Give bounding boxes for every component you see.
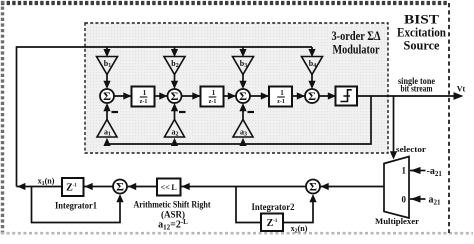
- svg-text:Σ: Σ: [309, 180, 317, 194]
- svg-text:selector: selector: [396, 144, 426, 154]
- wire: [319, 95, 336, 97]
- mux input 0: a21: [410, 198, 426, 200]
- coefficient a1 triangle: [97, 120, 117, 138]
- wire b4 to summer: [311, 75, 313, 85]
- figure outer dashed border left: [1, 1, 4, 236]
- wire: [292, 95, 305, 97]
- inner dashed separator line right: [448, 3, 450, 233]
- svg-text:Source: Source: [404, 39, 440, 53]
- summer S1b (integrator1 sigma): [113, 180, 127, 194]
- wire S1b to Z-1 of integrator1: [84, 186, 113, 188]
- wire: [114, 95, 132, 97]
- integrator2 Z-1 block: [261, 214, 283, 232]
- svg-text:Σ: Σ: [308, 89, 316, 103]
- svg-text:Arithmetic Shift Right: Arithmetic Shift Right: [134, 200, 211, 210]
- wire a1 to summer (minus input): [106, 108, 108, 120]
- coefficient b4 triangle: [302, 57, 323, 75]
- wire: [182, 95, 201, 97]
- svg-text:x2(n): x2(n): [291, 224, 308, 235]
- svg-text:a21: a21: [429, 195, 442, 207]
- wire Z-1 out to x2(n) and up into S2b: [283, 197, 313, 223]
- wire drop into b4: [311, 47, 313, 52]
- svg-text:1: 1: [280, 89, 284, 97]
- wire quantizer output to Vt: [357, 95, 455, 97]
- wire b3 to summer: [242, 75, 244, 85]
- wire selector from bit stream down to multiplexer: [393, 96, 395, 153]
- wire: [250, 95, 269, 97]
- summer S2b (integrator2 sigma): [306, 180, 320, 194]
- wire Z-1 to left corner node x1(n): [17, 186, 63, 188]
- wire b2 to summer: [174, 75, 176, 85]
- integrator2 feedback loop wire down from bottom row: [236, 187, 261, 223]
- svg-text:<< L: << L: [161, 183, 177, 192]
- svg-text:BIST: BIST: [404, 13, 440, 27]
- wire feedback stub up into a triangle: [106, 141, 108, 144]
- svg-text:Modulator: Modulator: [333, 42, 380, 57]
- minus sign at summer 2: [179, 111, 186, 113]
- svg-text:Vt: Vt: [457, 84, 466, 94]
- svg-text:0: 0: [402, 195, 407, 205]
- integrator1 feedback loop wire: [32, 187, 121, 223]
- svg-text:Σ: Σ: [239, 89, 247, 103]
- integrator block 1/(z-1) #3: [269, 87, 292, 107]
- summer S1 (sigma): [100, 89, 114, 103]
- svg-text:Σ: Σ: [171, 89, 179, 103]
- svg-text:Integrator2: Integrator2: [252, 202, 295, 212]
- svg-text:Integrator1: Integrator1: [55, 201, 97, 211]
- svg-text:z-1: z-1: [209, 99, 217, 105]
- wire feedback from quantizer output down and left to a coefficients: [107, 96, 371, 144]
- svg-text:a12=2-L: a12=2-L: [158, 218, 188, 232]
- wire: [155, 95, 168, 97]
- summer S4 (sigma): [305, 89, 319, 103]
- wire a3 to summer (minus input): [242, 108, 244, 120]
- svg-text:Excitation: Excitation: [397, 26, 446, 40]
- svg-text:Σ: Σ: [116, 180, 124, 194]
- wire feedback stub up into a triangle: [242, 141, 244, 144]
- coefficient b2 triangle: [164, 57, 185, 75]
- coefficient b1 triangle: [97, 57, 118, 75]
- summer S2 (sigma): [168, 89, 182, 103]
- wire: [224, 95, 237, 97]
- integrator1 Z-1 block: [62, 178, 84, 196]
- svg-text:Multiplexer: Multiplexer: [375, 216, 419, 226]
- svg-text:1: 1: [143, 89, 147, 97]
- svg-text:bit stream: bit stream: [401, 84, 433, 94]
- svg-text:-a21: -a21: [427, 166, 443, 178]
- svg-text:1: 1: [402, 166, 407, 176]
- integrator block 1/(z-1) #2: [201, 87, 224, 107]
- figure outer dashed border top: [1, 1, 449, 5]
- wire drop into b3: [242, 47, 244, 52]
- svg-text:z-1: z-1: [140, 99, 148, 105]
- coefficient a3 triangle: [233, 120, 253, 138]
- mux input 1: -a21: [410, 170, 426, 172]
- wire S2b to ASR block: [181, 186, 306, 188]
- wire feedback stub up into a triangle: [174, 141, 176, 144]
- minus sign at summer 3: [248, 111, 255, 113]
- svg-text:z-1: z-1: [277, 99, 285, 105]
- integrator block 1/(z-1) #1: [132, 87, 155, 107]
- coefficient a2 triangle: [165, 120, 185, 138]
- wire a2 to summer (minus input): [174, 108, 176, 120]
- wire input vertical from x1(n) up the left side: [17, 47, 313, 187]
- arrow into left corner node: [17, 183, 25, 190]
- wire ASR to summer S1b: [128, 186, 158, 188]
- summer S3 (sigma): [236, 89, 250, 103]
- wire b1 to summer: [106, 75, 108, 85]
- svg-text:1: 1: [212, 89, 216, 97]
- wire drop into b2: [174, 47, 176, 52]
- coefficient b3 triangle: [233, 57, 254, 75]
- minus sign at summer 1: [112, 111, 119, 113]
- ASR block <<L: [157, 179, 181, 196]
- wire mux output to summer S2b: [320, 186, 384, 188]
- svg-text:Σ: Σ: [103, 89, 111, 103]
- figure outer dashed border bottom: [1, 232, 473, 235]
- 3-order sigma-delta modulator dashed box: [85, 23, 388, 153]
- quantizer (1-bit comparator) block: [336, 87, 358, 106]
- wire drop into b1: [106, 47, 108, 52]
- multiplexer trapezoid: [384, 157, 409, 219]
- svg-text:x1(n): x1(n): [38, 177, 55, 188]
